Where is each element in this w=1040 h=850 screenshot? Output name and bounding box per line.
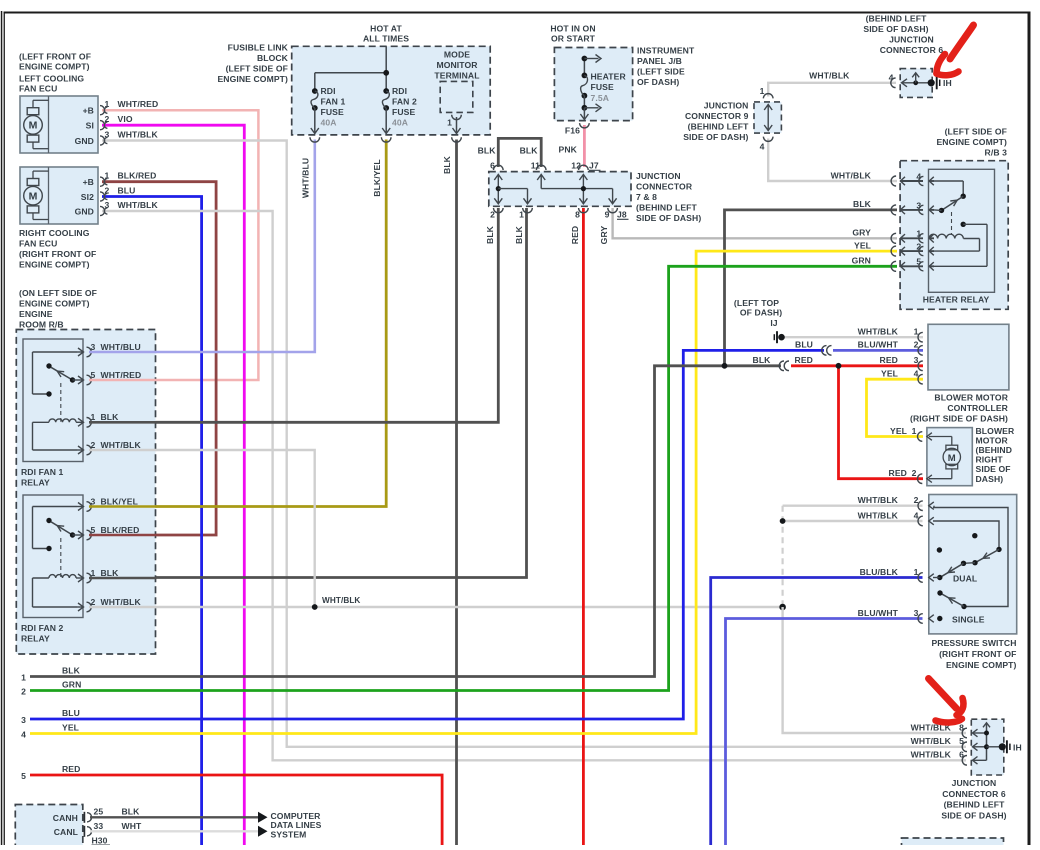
RDI fan1 relay pin 1 connector (BLK) [77, 412, 119, 427]
svg-text:PRESSURE SWITCH: PRESSURE SWITCH [931, 638, 1016, 648]
svg-text:R/B 3: R/B 3 [985, 148, 1008, 158]
wire BLK from row 1 up to BMC pin3 segment [30, 366, 781, 677]
svg-text:5: 5 [916, 257, 921, 267]
svg-text:IH: IH [1013, 742, 1022, 752]
wire WHT/BLK from junction node to junction connector 6 pin 8 [783, 607, 966, 733]
RDI fan1 relay pin 5 connector (WHT/RED) [77, 370, 141, 385]
svg-text:SINGLE: SINGLE [952, 614, 985, 624]
svg-text:RDI: RDI [392, 86, 407, 96]
svg-text:4: 4 [914, 510, 919, 520]
svg-text:ENGINE COMPT): ENGINE COMPT) [19, 260, 90, 270]
svg-text:GRN: GRN [62, 679, 81, 689]
svg-text:WHT/BLK: WHT/BLK [101, 597, 142, 607]
wire RED row 5 down off page [30, 775, 442, 845]
svg-text:2: 2 [914, 340, 919, 350]
svg-text:BLU: BLU [118, 186, 136, 196]
svg-text:MOTOR: MOTOR [976, 435, 1009, 445]
svg-text:3: 3 [91, 342, 96, 352]
svg-text:1: 1 [916, 229, 921, 239]
svg-text:4: 4 [916, 171, 921, 181]
JC6 bottom pin 5 connector (WHT/BLK) [911, 736, 987, 751]
svg-text:WHT/BLK: WHT/BLK [831, 170, 872, 180]
wire WHT/BLK from junction connector 9 pin 4 to heater relay pin 4 [768, 139, 897, 182]
svg-text:PANEL J/B: PANEL J/B [637, 56, 682, 66]
heater relay pin 5 connector (GRN) [852, 256, 934, 272]
svg-text:WHT/BLU: WHT/BLU [301, 158, 311, 198]
RDI FAN 2 RELAY inner box [23, 495, 83, 618]
svg-text:CONNECTOR 6: CONNECTOR 6 [942, 789, 1006, 799]
svg-text:RIGHT COOLING: RIGHT COOLING [19, 228, 90, 238]
junction connector 7&8 label [636, 171, 701, 223]
wire YEL from heater relay pin 2 to row 4 [30, 251, 897, 733]
fuse RDI FAN 1 FUSE 40A [311, 86, 346, 134]
svg-text:FAN ECU: FAN ECU [19, 84, 57, 94]
svg-text:3: 3 [914, 608, 919, 618]
svg-text:1: 1 [760, 86, 765, 96]
svg-text:SIDE OF DASH): SIDE OF DASH) [941, 810, 1006, 820]
fusible link block label [217, 43, 288, 85]
left cooling fan ECU box with motor M [20, 96, 98, 153]
RDI fan2 relay pin 2 connector (WHT/BLK) [77, 597, 142, 612]
JC7&8 bottom pin connectors 2 1 8 9 J8 [490, 208, 628, 220]
svg-text:1: 1 [519, 210, 524, 220]
svg-text:GND: GND [75, 207, 94, 217]
wire WHT/BLK pressure switch pin 2 to dashed node [783, 505, 923, 507]
blower motor label [976, 426, 1015, 484]
svg-text:+B: +B [83, 177, 94, 187]
pressure switch pin 1 connector (BLU/BLK) [860, 567, 934, 583]
wire RED branch from BMC pin3 junction to blower motor pin 2 [839, 366, 924, 479]
blower motor pin 1 connector (YEL) [890, 426, 932, 441]
svg-text:33: 33 [94, 821, 104, 831]
svg-text:PNK: PNK [559, 145, 578, 155]
blower motor controller box [928, 324, 1009, 390]
svg-text:BLK/RED: BLK/RED [101, 525, 140, 535]
svg-text:BLK: BLK [101, 568, 120, 578]
wire WHT/BLU from fusible link fuse1 to RDI fan1 relay pin3 [89, 140, 315, 353]
svg-text:(BEHIND LEFT: (BEHIND LEFT [866, 14, 928, 24]
svg-text:2: 2 [91, 440, 96, 450]
RDI FAN 1 RELAY caption [21, 467, 64, 488]
heater relay pin 4 connector (WHT/BLK) [831, 170, 934, 186]
svg-text:RIGHT: RIGHT [976, 455, 1004, 465]
svg-text:WHT: WHT [122, 821, 143, 831]
right cooling fan ECU label [19, 228, 96, 270]
svg-text:(RIGHT FRONT OF: (RIGHT FRONT OF [939, 649, 1016, 659]
svg-text:1: 1 [105, 99, 110, 109]
H30 connector label [92, 836, 111, 846]
svg-text:9: 9 [605, 210, 610, 220]
svg-text:8: 8 [959, 722, 964, 732]
ECU1 pin 2 SI connector [100, 114, 133, 130]
svg-text:2: 2 [105, 114, 110, 124]
svg-text:FUSE: FUSE [591, 82, 614, 92]
RDI FAN 2 RELAY caption [21, 623, 64, 644]
svg-text:WHT/BLK: WHT/BLK [809, 71, 850, 81]
svg-text:WHT/BLK: WHT/BLK [322, 596, 360, 605]
wire RED from junction connector 7&8 pin 8 down off page [582, 208, 585, 845]
svg-text:(RIGHT FRONT OF: (RIGHT FRONT OF [19, 249, 96, 259]
svg-text:M: M [29, 120, 38, 132]
wire BLK bridge over junction connector 7&8 pins 6-11 [498, 138, 541, 167]
svg-text:BLK: BLK [753, 355, 772, 365]
svg-text:(LEFT SIDE: (LEFT SIDE [637, 67, 685, 77]
CANL pin 33 [54, 821, 268, 837]
svg-text:VIO: VIO [118, 114, 133, 124]
junction dot WHT/BLK relay wires [312, 596, 361, 610]
svg-text:(ON LEFT SIDE OF: (ON LEFT SIDE OF [19, 288, 97, 298]
ECU1 pin 3 GND connector [100, 130, 159, 146]
junction connector 6 top box [889, 69, 952, 98]
svg-text:WHT/RED: WHT/RED [101, 370, 142, 380]
heater relay inner box [929, 169, 995, 292]
svg-text:TERMINAL: TERMINAL [434, 71, 479, 81]
wire BLK/RED from ECU2 +B to RDI fan2 relay pin5 [89, 182, 216, 535]
svg-text:2: 2 [490, 210, 495, 220]
svg-text:ENGINE COMPT): ENGINE COMPT) [936, 137, 1007, 147]
svg-text:JUNCTION: JUNCTION [636, 171, 681, 181]
svg-text:SIDE OF DASH): SIDE OF DASH) [683, 132, 748, 142]
svg-text:4: 4 [760, 142, 765, 152]
svg-text:RED: RED [570, 226, 580, 244]
svg-text:LEFT COOLING: LEFT COOLING [19, 74, 84, 84]
wire stubs inside engine room R/B [89, 352, 157, 607]
svg-text:3: 3 [916, 200, 921, 210]
svg-text:YEL: YEL [62, 722, 79, 732]
svg-text:+B: +B [83, 106, 94, 116]
svg-text:OF DASH): OF DASH) [637, 77, 679, 87]
svg-text:WHT/BLK: WHT/BLK [858, 495, 899, 505]
svg-text:FUSIBLE LINK: FUSIBLE LINK [228, 43, 289, 53]
blower motor box with motor M [927, 428, 972, 486]
svg-text:BLK/YEL: BLK/YEL [372, 159, 382, 196]
blower motor pin 2 connector (RED) [889, 468, 932, 483]
svg-text:2: 2 [912, 468, 917, 478]
pressure switch internal contacts [933, 506, 1008, 625]
svg-text:8: 8 [575, 210, 580, 220]
svg-text:ALL TIMES: ALL TIMES [363, 34, 409, 44]
wire GRY from junction connector 7&8 pin 9 to heater relay pin 1 [613, 208, 897, 238]
svg-text:3: 3 [91, 496, 96, 506]
junction connector 6 bottom box [971, 719, 1004, 775]
svg-text:WHT/BLK: WHT/BLK [118, 130, 159, 140]
svg-text:BLOWER: BLOWER [976, 426, 1015, 436]
junction dot BLK heater relay / BMC [722, 363, 728, 369]
svg-text:5: 5 [91, 525, 96, 535]
svg-text:(BEHIND LEFT: (BEHIND LEFT [688, 122, 750, 132]
RDI fan2 relay pin 5 connector (BLK/RED) [77, 525, 139, 540]
svg-text:BLK: BLK [101, 412, 120, 422]
svg-text:BLOCK: BLOCK [257, 53, 289, 63]
svg-text:40A: 40A [392, 118, 408, 128]
wire WHT/BLK from RDI fan2 relay pin2 to dashed junction node [89, 606, 782, 608]
wire WHT/BLK from ECU2 GND to junction connector 6 pin 6 [102, 211, 966, 760]
svg-text:BLU: BLU [62, 708, 80, 718]
heater relay pin 1 connector (GRY) [852, 228, 934, 244]
svg-text:YEL: YEL [854, 240, 871, 250]
inline connector BLU to BLU/WHT [795, 340, 831, 356]
svg-text:INSTRUMENT: INSTRUMENT [637, 46, 695, 56]
svg-text:DUAL: DUAL [953, 573, 977, 583]
svg-text:RED: RED [62, 764, 80, 774]
fusible link block exit connectors [310, 137, 461, 142]
svg-text:WHT/BLK: WHT/BLK [911, 736, 952, 746]
svg-text:SIDE OF DASH): SIDE OF DASH) [863, 24, 928, 34]
wire VIO from ECU1 SI down off page [102, 125, 244, 845]
svg-text:RED: RED [889, 468, 907, 478]
svg-text:FUSE: FUSE [392, 107, 415, 117]
svg-text:ENGINE COMPT): ENGINE COMPT) [19, 299, 90, 309]
svg-text:BLU/BLK: BLU/BLK [860, 567, 899, 577]
svg-text:BLK: BLK [520, 146, 539, 156]
svg-text:J7: J7 [589, 161, 599, 171]
svg-text:(LEFT SIDE OF: (LEFT SIDE OF [226, 64, 288, 74]
heater fuse 7.5A inside J/B [580, 55, 626, 120]
svg-text:ENGINE COMPT): ENGINE COMPT) [217, 74, 288, 84]
wire WHT/BLK from ECU1 GND to junction connector 6 pin 5 [102, 141, 966, 747]
svg-text:2: 2 [914, 495, 919, 505]
svg-text:(LEFT FRONT OF: (LEFT FRONT OF [19, 52, 91, 62]
wire WHT/BLK pressure switch pin 4 [783, 520, 923, 522]
svg-text:M: M [29, 191, 38, 203]
JC6 bottom pin 8 connector (WHT/BLK) [911, 722, 987, 737]
svg-text:1: 1 [914, 567, 919, 577]
wire BLK from RDI fan2 relay pin1 to junction connector 7&8 pin 1 [89, 208, 527, 578]
svg-text:SYSTEM: SYSTEM [271, 829, 307, 839]
svg-text:WHT/BLK: WHT/BLK [858, 510, 899, 520]
wire RED from inline connector to BMC pin 3 [791, 364, 923, 367]
wire PNK from heater fuse F16 to junction connector 7&8 pin 12 [583, 125, 586, 167]
wire BLK from mode monitor terminal down off page [455, 140, 458, 846]
svg-text:RED: RED [880, 355, 898, 365]
svg-text:40A: 40A [321, 118, 337, 128]
RDI fan2 relay pin 3 connector (BLK/YEL) [77, 496, 138, 511]
svg-text:ENGINE COMPT): ENGINE COMPT) [946, 660, 1017, 670]
svg-text:OR START: OR START [551, 34, 596, 44]
svg-text:GND: GND [75, 136, 94, 146]
svg-text:SIDE OF DASH): SIDE OF DASH) [636, 213, 701, 223]
svg-text:2: 2 [91, 597, 96, 607]
CAN connector dashed box [15, 805, 83, 849]
svg-text:CONTROLLER: CONTROLLER [947, 403, 1008, 413]
CANH pin 25 [53, 806, 268, 823]
wire BLU from ECU2 SI2 down off page [102, 197, 202, 846]
svg-text:(BEHIND LEFT: (BEHIND LEFT [636, 203, 698, 213]
svg-text:1: 1 [21, 673, 26, 683]
junction connector 6 bottom label [941, 778, 1006, 820]
svg-text:H30: H30 [92, 836, 108, 846]
junction connector 7&8 box [489, 172, 631, 207]
pressure switch label [931, 638, 1016, 670]
svg-text:1: 1 [105, 171, 110, 181]
junction dot RED to blower motor [836, 363, 842, 369]
pressure switch box [929, 495, 1017, 634]
junction connector 9 label [683, 101, 749, 143]
svg-text:1: 1 [912, 426, 917, 436]
wire BLK from RDI fan1 relay pin1 to junction connector 7&8 pin 2 [89, 208, 498, 422]
svg-text:BLK: BLK [514, 225, 524, 244]
svg-text:HEATER RELAY: HEATER RELAY [923, 295, 990, 305]
svg-text:2: 2 [105, 186, 110, 196]
RDI fan1 relay pin 2 connector (WHT/BLK) [77, 440, 142, 455]
svg-text:RDI FAN 1: RDI FAN 1 [21, 467, 64, 477]
fuse RDI FAN 2 FUSE 40A [382, 86, 417, 134]
svg-text:BLU: BLU [795, 340, 813, 350]
RDI fan2 relay pin 1 connector (BLK) [77, 568, 119, 583]
engine room R/B dashed box [16, 330, 155, 655]
svg-text:WHT/BLK: WHT/BLK [858, 327, 899, 337]
svg-text:GRN: GRN [852, 256, 871, 266]
svg-text:BLU/WHT: BLU/WHT [858, 608, 899, 618]
svg-text:3: 3 [21, 715, 26, 725]
wire WHT/BLK from RDI fan1 relay pin2 joining relay2 pin2 wire [89, 450, 315, 607]
svg-text:JUNCTION: JUNCTION [704, 101, 749, 111]
wire BLK/YEL from fusible link fuse2 to RDI fan2 relay pin3 [89, 140, 386, 507]
svg-text:CONNECTOR: CONNECTOR [636, 182, 693, 192]
svg-text:YEL: YEL [890, 426, 907, 436]
pressure switch pin 2 connector (WHT/BLK) [858, 495, 934, 511]
BMC pin 3 connector (RED) [880, 355, 923, 371]
partial dashed box bottom right [902, 838, 1004, 850]
svg-text:WHT/RED: WHT/RED [118, 99, 159, 109]
mode monitor terminal [434, 50, 479, 134]
engine room R/B label [19, 288, 97, 330]
HOT AT ALL TIMES label [363, 24, 409, 44]
svg-text:MODE: MODE [444, 50, 470, 60]
svg-text:WHT/BLK: WHT/BLK [118, 200, 159, 210]
svg-text:FAN 1: FAN 1 [321, 97, 346, 107]
svg-text:RED: RED [795, 355, 813, 365]
node 3 row label (BLU) [21, 708, 80, 725]
dashed WHT/BLK link down pressure switch pin2/pin4 to relay ground node [781, 506, 783, 607]
svg-text:1: 1 [914, 327, 919, 337]
svg-text:1: 1 [91, 568, 96, 578]
blower motor controller label [910, 393, 1009, 424]
wire BLK from heater relay pin 3 to BMC pin3 junction [725, 210, 898, 366]
RDI fan1 relay pin 3 connector (WHT/BLU) [77, 342, 141, 357]
svg-text:IJ: IJ [770, 318, 777, 328]
wire BLU/WHT from pressure switch pin 3 down off page [726, 619, 923, 846]
svg-text:ROOM R/B: ROOM R/B [19, 320, 64, 330]
fusible link feed wires [315, 46, 389, 90]
svg-text:12: 12 [571, 161, 581, 171]
svg-text:BLK: BLK [853, 199, 872, 209]
junction connector 9 box [754, 86, 781, 152]
svg-text:MONITOR: MONITOR [436, 60, 478, 70]
svg-text:RDI FAN 2: RDI FAN 2 [21, 623, 64, 633]
svg-text:BLK: BLK [478, 146, 497, 156]
wire GRN from heater relay pin 5 to row 2 [30, 266, 897, 690]
svg-text:M: M [948, 453, 956, 464]
heater relay internal switch and coil [929, 181, 987, 266]
svg-text:7 & 8: 7 & 8 [636, 192, 657, 202]
svg-text:6: 6 [959, 750, 964, 760]
svg-text:(LEFT SIDE OF: (LEFT SIDE OF [945, 127, 1007, 137]
svg-text:SIDE OF: SIDE OF [976, 464, 1011, 474]
svg-text:F16: F16 [565, 126, 580, 136]
svg-text:3: 3 [914, 355, 919, 365]
wire BLU/BLK from pressure switch pin 1 down off page [711, 578, 923, 846]
node 2 row label (GRN) [21, 679, 81, 696]
JC6 bottom internal bus and IH ground [983, 723, 1022, 761]
svg-text:2: 2 [916, 242, 921, 252]
svg-text:BLU/WHT: BLU/WHT [858, 340, 899, 350]
node 5 row label (RED) [21, 764, 80, 781]
svg-text:DASH): DASH) [976, 474, 1004, 484]
svg-text:CANH: CANH [53, 813, 78, 823]
instrument panel J/B box [554, 48, 632, 121]
svg-text:HEATER: HEATER [591, 72, 627, 82]
ECU2 pin 1 +B connector [100, 171, 156, 187]
BMC pin 4 connector (YEL) [881, 369, 923, 385]
junction connector 6 top label [863, 14, 943, 56]
svg-text:WHT/BLK: WHT/BLK [911, 750, 952, 760]
svg-text:(RIGHT SIDE OF DASH): (RIGHT SIDE OF DASH) [910, 414, 1008, 424]
svg-text:BLK: BLK [122, 806, 141, 816]
right cooling fan ECU box with motor M [20, 167, 98, 224]
HOT IN ON OR START label [550, 24, 595, 44]
svg-text:HOT AT: HOT AT [370, 24, 402, 34]
left cooling fan ECU label [19, 52, 91, 94]
wire BLU from BMC pin 2 to row 3 [30, 350, 824, 719]
JC7&8 internal bus [494, 175, 616, 204]
heater relay pin 3 connector (BLK) [853, 199, 934, 215]
svg-text:4: 4 [21, 730, 26, 740]
svg-text:4: 4 [914, 369, 919, 379]
JC7&8 top pin connectors 6 11 12 J7 [490, 161, 600, 171]
node 1 row label (BLK) [21, 665, 81, 682]
svg-text:FAN ECU: FAN ECU [19, 239, 57, 249]
ECU2 pin 2 SI2 connector [100, 186, 135, 202]
svg-text:YEL: YEL [881, 369, 898, 379]
heater relay R/B 3 label [936, 127, 1007, 158]
junction dot pressure switch pin4 on dashed link [780, 518, 786, 524]
svg-text:RELAY: RELAY [21, 478, 50, 488]
svg-text:JUNCTION: JUNCTION [952, 778, 997, 788]
svg-text:1: 1 [91, 412, 96, 422]
computer data lines system label [271, 811, 322, 840]
junction dot relay WHT/BLK joins dashed link [779, 604, 786, 611]
J/B exit connector and F16 label [565, 123, 589, 135]
wire WHT/BLK from IJ ground to BMC pin 1 [782, 336, 924, 338]
instrument panel J/B label [637, 46, 695, 88]
svg-text:3: 3 [105, 200, 110, 210]
svg-text:SI: SI [86, 121, 94, 131]
svg-text:25: 25 [94, 806, 104, 816]
svg-text:BLK: BLK [485, 225, 495, 244]
svg-text:RELAY: RELAY [21, 634, 50, 644]
BMC pin 2 connector (BLU/WHT) [858, 340, 923, 356]
svg-text:CONNECTOR 6: CONNECTOR 6 [880, 45, 944, 55]
wire BLU/WHT inline connector to BMC pin 2 [833, 349, 923, 352]
ECU2 pin 3 GND connector [100, 200, 159, 216]
red annotation arrow top [937, 25, 974, 75]
svg-text:FAN 2: FAN 2 [392, 97, 417, 107]
svg-text:J8: J8 [617, 210, 627, 220]
svg-text:(BEHIND LEFT: (BEHIND LEFT [944, 800, 1006, 810]
svg-text:GRY: GRY [852, 228, 871, 238]
svg-text:WHT/BLU: WHT/BLU [101, 342, 141, 352]
svg-text:WHT/BLK: WHT/BLK [101, 440, 142, 450]
svg-text:CONNECTOR 9: CONNECTOR 9 [685, 111, 749, 121]
svg-text:CANL: CANL [54, 827, 78, 837]
svg-text:5: 5 [91, 370, 96, 380]
svg-text:3: 3 [105, 130, 110, 140]
svg-text:JUNCTION: JUNCTION [889, 35, 934, 45]
svg-text:BLK/YEL: BLK/YEL [101, 496, 138, 506]
svg-text:BLOWER MOTOR: BLOWER MOTOR [934, 393, 1008, 403]
wire WHT/BLK from junction connector 9 pin 1 to junction connector 6 pin 4 [768, 83, 896, 97]
